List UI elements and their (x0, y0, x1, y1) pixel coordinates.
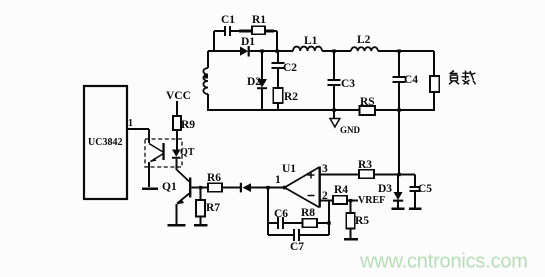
svg-text:R7: R7 (206, 202, 220, 214)
svg-text:C2: C2 (283, 62, 297, 74)
svg-text:VREF: VREF (358, 195, 385, 206)
svg-text:C4: C4 (404, 74, 418, 86)
svg-text:R2: R2 (284, 91, 298, 103)
svg-text:R1: R1 (252, 14, 266, 26)
svg-text:Q1: Q1 (162, 181, 177, 193)
svg-text:1: 1 (128, 118, 133, 129)
svg-text:RS: RS (360, 96, 375, 108)
svg-text:VCC: VCC (166, 90, 191, 102)
svg-text:D3: D3 (378, 183, 392, 195)
svg-text:1: 1 (275, 174, 281, 186)
svg-text:C6: C6 (274, 208, 288, 220)
svg-text:R5: R5 (355, 215, 369, 227)
svg-text:C5: C5 (418, 183, 432, 195)
svg-text:R4: R4 (334, 184, 348, 196)
svg-text:GND: GND (340, 125, 361, 135)
svg-text:3: 3 (322, 163, 328, 175)
svg-text:QT: QT (180, 147, 195, 158)
svg-text:L1: L1 (304, 35, 318, 47)
svg-text:R8: R8 (301, 207, 315, 219)
svg-text:D2: D2 (247, 76, 261, 88)
svg-text:R3: R3 (358, 159, 372, 171)
svg-text:U1: U1 (282, 163, 296, 175)
svg-text:C1: C1 (221, 14, 235, 26)
svg-text:www.cntronics.com: www.cntronics.com (359, 251, 528, 273)
svg-text:R9: R9 (181, 119, 195, 131)
svg-text:C3: C3 (341, 78, 355, 90)
svg-text:D1: D1 (241, 36, 255, 48)
svg-text:C7: C7 (290, 241, 304, 253)
svg-text:2: 2 (322, 190, 328, 202)
svg-text:R6: R6 (207, 172, 221, 184)
svg-text:L2: L2 (357, 34, 371, 46)
svg-text:UC3842: UC3842 (88, 137, 122, 148)
